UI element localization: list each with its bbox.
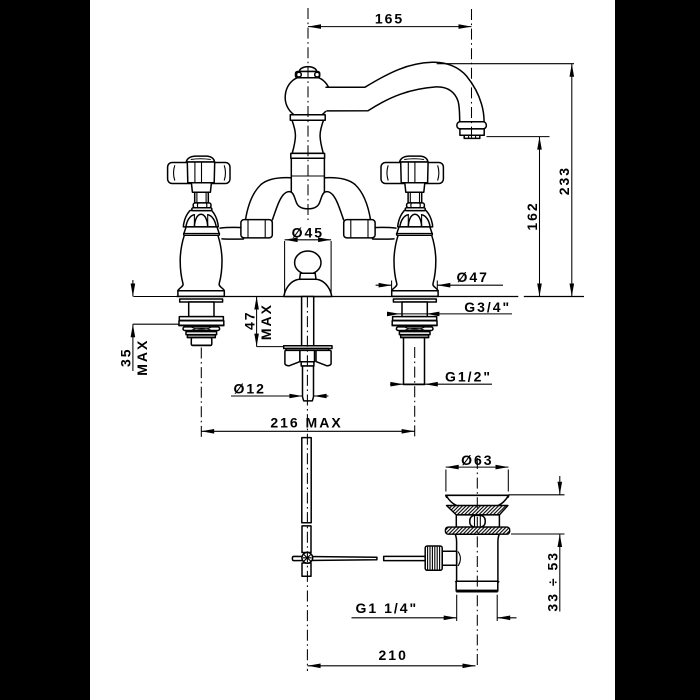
svg-text:MAX: MAX <box>134 339 150 376</box>
dim G1/2 leader <box>390 383 403 385</box>
lift rod segment 2 <box>302 526 311 553</box>
drain body seat arc <box>458 552 460 567</box>
spout neck ring upper <box>290 115 325 120</box>
drain neck barrel <box>470 515 485 527</box>
spout finial dome <box>299 67 316 72</box>
pop-up rod through deck <box>302 297 314 346</box>
pop-up clevis lower block <box>301 362 314 366</box>
dim Ø45 ext lines <box>284 241 286 295</box>
right black band <box>615 0 700 700</box>
deck line <box>176 296 584 298</box>
dim Ø47 leader <box>376 284 392 286</box>
dim 165 arrows <box>308 24 321 29</box>
svg-text:216 MAX: 216 MAX <box>270 414 342 430</box>
dim G1 1/4 leader <box>352 617 457 619</box>
pop-up washer bar <box>284 346 332 351</box>
left handle <box>168 156 230 210</box>
dim G3/4 leader <box>389 313 512 315</box>
drain tailpiece <box>455 581 499 592</box>
right shank G1/2 tail <box>404 338 425 385</box>
pop-up knob ball <box>295 251 321 274</box>
left valve body <box>178 235 224 290</box>
svg-text:33 ÷ 53: 33 ÷ 53 <box>545 551 561 612</box>
lift rod segment 3 <box>302 563 311 576</box>
pop-up clevis center block <box>300 350 315 361</box>
dim 210 line <box>308 665 476 667</box>
right handle <box>381 156 443 210</box>
lift rod segment 1 <box>302 438 311 523</box>
dim Ø12 leader <box>231 395 302 397</box>
svg-text:Ø63: Ø63 <box>461 452 493 468</box>
spout column cylinder <box>291 158 324 192</box>
pop-up clevis right wing <box>316 350 331 365</box>
drain locknut hatched <box>445 527 509 534</box>
dim 165 line <box>308 26 472 28</box>
drain flange sides <box>446 495 509 505</box>
dim 35MAX line top <box>132 280 134 297</box>
pop-up knob neck <box>300 273 316 279</box>
svg-text:G1/2": G1/2" <box>445 368 492 384</box>
right valve base flange <box>392 291 438 297</box>
centerline left shank <box>200 348 202 438</box>
spout arm lower contour <box>327 87 460 122</box>
svg-text:Ø45: Ø45 <box>292 224 324 240</box>
left shank stack <box>179 299 224 338</box>
dim 47MAX line <box>256 297 258 347</box>
svg-text:162: 162 <box>524 201 540 230</box>
pop-up clevis left wing <box>285 350 300 365</box>
centerline spout column <box>307 8 309 222</box>
right shank stack <box>392 299 437 338</box>
svg-text:35: 35 <box>118 347 134 367</box>
svg-text:Ø47: Ø47 <box>457 269 489 285</box>
right valve body <box>392 235 438 290</box>
bridge arch left <box>220 178 308 239</box>
dim 233 ext line top <box>437 63 574 65</box>
drain side connector <box>442 551 456 565</box>
spout arm fill <box>320 62 484 122</box>
dim 33-53 ext lines <box>509 494 565 496</box>
spout neck concave <box>292 120 324 153</box>
svg-text:210: 210 <box>379 647 408 663</box>
svg-text:G3/4": G3/4" <box>464 299 511 315</box>
svg-text:MAX: MAX <box>258 303 274 340</box>
drain flange top <box>446 495 509 497</box>
deck dashes left <box>134 296 177 298</box>
drain cone hatched <box>447 506 508 515</box>
pop-up escutcheon dome <box>284 279 332 296</box>
drain body <box>455 534 499 581</box>
bridge arch right <box>308 178 396 239</box>
dim 35MAX line bottom <box>132 324 134 371</box>
dim 162 line <box>539 137 541 297</box>
dim 233 line <box>571 64 573 297</box>
horizontal rod left segment <box>292 556 377 560</box>
right valve bonnet <box>397 211 433 236</box>
left valve bonnet <box>183 211 218 227</box>
dim 35MAX ext <box>133 323 179 325</box>
svg-text:Ø12: Ø12 <box>234 381 266 397</box>
dim G1 1/4 ext lines <box>456 595 458 621</box>
spout finial flange <box>296 72 320 78</box>
horizontal rod right segment <box>384 556 426 560</box>
centerline spout outlet <box>471 9 473 140</box>
centerline drain <box>476 458 478 668</box>
spout arm upper contour <box>326 62 484 122</box>
dim 216MAX line <box>201 430 414 432</box>
spout outlet aerator <box>457 122 486 139</box>
svg-text:165: 165 <box>375 11 404 27</box>
drain knurled nut <box>425 546 442 570</box>
spout bulb <box>285 78 331 115</box>
rod swivel knot <box>302 552 313 563</box>
svg-text:47: 47 <box>241 310 257 330</box>
centerline right shank <box>414 347 416 438</box>
dim Ø63 line <box>446 466 509 468</box>
svg-text:233: 233 <box>556 166 572 195</box>
left black band <box>0 0 90 700</box>
dim 33-53 line <box>559 476 561 495</box>
left valve base flange <box>178 291 224 297</box>
left shank nut <box>191 338 212 346</box>
centerline pop-up rod <box>306 297 308 672</box>
pop-up rod lower (Ø12) <box>303 366 314 401</box>
spout neck ring lower <box>291 153 325 158</box>
dim Ø63 ext lines <box>445 470 447 492</box>
drain neck <box>456 515 499 527</box>
svg-text:G1 1/4": G1 1/4" <box>356 600 419 616</box>
dim Ø45 line <box>285 239 332 241</box>
dim 162 ext line <box>487 136 550 138</box>
dim 47MAX ext <box>257 346 284 348</box>
